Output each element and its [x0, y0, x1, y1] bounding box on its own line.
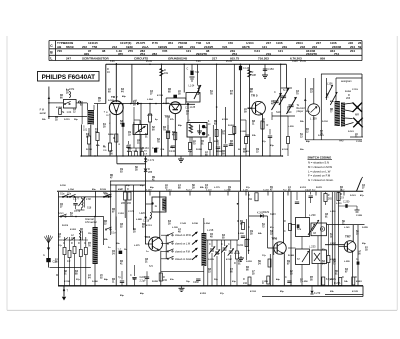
svg-text:K.253: K.253: [200, 293, 207, 295]
svg-text:TR 5: TR 5: [251, 94, 258, 98]
svg-text:96n: 96n: [300, 149, 304, 151]
svg-text:C: C: [130, 274, 132, 277]
svg-text:C.143: C.143: [180, 222, 187, 225]
svg-text:16k: 16k: [164, 72, 169, 75]
svg-text:C8: C8: [313, 233, 317, 235]
svg-text:K.193: K.193: [250, 291, 257, 293]
svg-text:6.76.203: 6.76.203: [290, 56, 302, 60]
svg-text:R: R: [71, 242, 73, 245]
svg-text:48: 48: [178, 231, 181, 234]
svg-text:L4: L4: [178, 228, 181, 231]
svg-text:C: C: [63, 242, 65, 245]
svg-text:88k: 88k: [96, 145, 100, 147]
svg-text:6p: 6p: [155, 119, 158, 121]
svg-text:C.2: C.2: [118, 249, 122, 251]
svg-text:C149: C149: [292, 61, 298, 63]
svg-text:V05: V05: [162, 49, 168, 53]
svg-text:R.208: R.208: [196, 149, 203, 151]
svg-text:K.213: K.213: [300, 187, 307, 189]
svg-text:159: 159: [313, 118, 318, 121]
svg-text:97: 97: [112, 212, 115, 214]
svg-text:954: 954: [168, 41, 173, 45]
svg-text:R.1: R.1: [144, 151, 148, 153]
svg-text:66: 66: [60, 98, 63, 100]
svg-text:23: 23: [208, 272, 211, 274]
svg-text:Ta: Ta: [62, 111, 65, 114]
svg-text:203: 203: [346, 97, 351, 100]
svg-text:S.221: S.221: [318, 135, 324, 137]
svg-text:R: R: [284, 220, 286, 223]
svg-text:MR: MR: [355, 113, 359, 117]
svg-text:R.276: R.276: [334, 282, 341, 285]
svg-text:L220: L220: [140, 212, 146, 215]
svg-text:50µ: 50µ: [216, 253, 220, 255]
svg-text:GRUNDIG245: GRUNDIG245: [168, 56, 188, 60]
svg-text:50: 50: [290, 274, 293, 276]
svg-text:48: 48: [210, 236, 213, 239]
svg-text:L.230: L.230: [309, 213, 316, 217]
svg-text:69µ: 69µ: [362, 243, 366, 245]
svg-text:94/78: 94/78: [242, 45, 250, 49]
svg-text:23: 23: [310, 92, 313, 94]
svg-text:69k: 69k: [330, 291, 334, 293]
svg-text:64: 64: [88, 277, 91, 280]
svg-text:58: 58: [330, 237, 333, 239]
svg-text:closed on M.W: closed on M.W: [175, 234, 192, 237]
svg-text:K.284: K.284: [56, 106, 63, 109]
svg-text:47n: 47n: [246, 150, 250, 153]
svg-text:1n: 1n: [146, 251, 149, 253]
svg-text:R: R: [119, 144, 121, 146]
svg-text:98: 98: [102, 49, 106, 53]
svg-text:S4: S4: [145, 133, 149, 136]
svg-text:1.04: 1.04: [67, 111, 72, 114]
svg-text:34: 34: [258, 263, 261, 266]
svg-text:81p: 81p: [270, 227, 274, 229]
svg-text:18: 18: [55, 120, 58, 122]
svg-text:L.151: L.151: [336, 203, 342, 205]
svg-text:51: 51: [64, 274, 67, 276]
svg-text:88p: 88p: [178, 125, 182, 127]
svg-text:R.274: R.274: [62, 224, 69, 227]
svg-text:915.75: 915.75: [230, 56, 240, 60]
svg-text:48µ: 48µ: [122, 95, 126, 98]
svg-text:70: 70: [296, 94, 299, 96]
svg-text:720: 720: [57, 49, 62, 53]
svg-text:101: 101: [83, 129, 88, 132]
svg-text:closed on Gram: closed on Gram: [175, 258, 192, 261]
svg-text:L.156: L.156: [330, 211, 336, 213]
svg-text:71: 71: [326, 97, 329, 99]
svg-text:L135: L135: [190, 107, 196, 109]
svg-text:S18: S18: [87, 207, 92, 210]
svg-text:V.24: V.24: [254, 49, 260, 53]
svg-text:player: player: [297, 110, 304, 113]
svg-text:C: C: [221, 243, 223, 246]
svg-text:6.269: 6.269: [146, 189, 152, 191]
svg-text:R: R: [267, 124, 269, 127]
svg-text:S.255: S.255: [362, 227, 368, 229]
svg-text:78: 78: [210, 94, 213, 96]
svg-text:S.1c: S.1c: [283, 89, 289, 92]
svg-text:K.113: K.113: [146, 225, 152, 227]
svg-text:K.137: K.137: [163, 103, 170, 105]
svg-text:closed on L.W: closed on L.W: [175, 243, 191, 246]
svg-text:L.179: L.179: [214, 187, 220, 189]
svg-text:K.246: K.246: [330, 258, 337, 261]
svg-text:K.158: K.158: [157, 95, 164, 97]
svg-text:S.161: S.161: [348, 131, 354, 133]
svg-text:46p: 46p: [140, 292, 144, 295]
svg-text:C: C: [209, 243, 211, 246]
svg-text:217: 217: [212, 56, 217, 60]
svg-text:L156: L156: [327, 83, 333, 86]
svg-text:19: 19: [128, 135, 131, 137]
svg-text:85p: 85p: [322, 249, 326, 251]
svg-text:T: T: [67, 291, 69, 293]
svg-text:7k: 7k: [356, 259, 359, 261]
svg-text:05: 05: [222, 238, 225, 240]
svg-text:204: 204: [350, 49, 355, 53]
svg-text:52: 52: [120, 227, 123, 229]
svg-text:85µ: 85µ: [280, 291, 284, 293]
svg-text:K.101: K.101: [282, 149, 289, 151]
svg-text:S.266: S.266: [92, 281, 98, 283]
svg-text:K.270: K.270: [330, 279, 337, 281]
svg-text:18µ: 18µ: [246, 239, 250, 241]
svg-text:89n: 89n: [92, 189, 96, 191]
svg-text:206: 206: [127, 202, 132, 205]
svg-text:S2a: S2a: [67, 194, 72, 196]
svg-text:77: 77: [330, 112, 333, 114]
svg-text:closed on F.M: closed on F.M: [175, 250, 190, 253]
svg-text:91: 91: [86, 137, 89, 139]
svg-text:S.161: S.161: [350, 195, 356, 197]
svg-text:C: C: [284, 230, 286, 233]
svg-text:M = closed on M.W: M = closed on M.W: [308, 165, 332, 169]
svg-text:242: 242: [243, 282, 248, 285]
svg-text:C.228: C.228: [356, 215, 363, 217]
svg-text:27k: 27k: [170, 119, 174, 121]
svg-text:51: 51: [145, 137, 148, 139]
svg-text:47p: 47p: [360, 194, 364, 197]
svg-text:2n: 2n: [108, 247, 111, 249]
svg-text:37: 37: [362, 188, 365, 190]
svg-text:C142: C142: [169, 150, 176, 153]
svg-text:R: R: [237, 220, 239, 223]
svg-text:TR3: TR3: [165, 115, 171, 119]
svg-text:25.09: 25.09: [300, 61, 306, 63]
svg-text:59: 59: [244, 112, 247, 114]
svg-text:959: 959: [320, 56, 325, 60]
svg-text:L: L: [50, 57, 52, 61]
svg-text:R.217: R.217: [186, 189, 193, 191]
svg-text:56: 56: [110, 154, 113, 156]
svg-text:283: 283: [152, 52, 157, 56]
svg-text:4.9: 4.9: [144, 154, 148, 156]
svg-text:28: 28: [135, 170, 138, 172]
svg-text:78: 78: [157, 142, 160, 144]
svg-text:R.182: R.182: [216, 151, 223, 153]
svg-text:63n: 63n: [170, 279, 174, 281]
svg-text:R: R: [234, 262, 236, 265]
svg-text:L4: L4: [178, 184, 181, 187]
svg-text:S.280: S.280: [108, 134, 114, 136]
svg-text:80p: 80p: [120, 295, 124, 297]
svg-text:S4: S4: [157, 138, 161, 141]
svg-text:L.231: L.231: [147, 115, 153, 117]
svg-text:S: S: [208, 121, 210, 123]
svg-text:226: 226: [103, 150, 107, 152]
svg-text:25.09: 25.09: [146, 61, 152, 63]
svg-text:247: 247: [66, 56, 71, 60]
svg-text:232/278: 232/278: [306, 52, 317, 56]
svg-text:C4: C4: [205, 184, 209, 187]
svg-text:202: 202: [82, 45, 87, 49]
svg-text:37: 37: [60, 207, 63, 209]
svg-text:TR6: TR6: [272, 237, 278, 241]
svg-text:C.259: C.259: [262, 281, 269, 283]
svg-text:S10: S10: [276, 111, 281, 114]
svg-text:67: 67: [345, 272, 348, 274]
svg-text:12: 12: [73, 112, 76, 114]
svg-text:S3b: S3b: [104, 194, 109, 196]
svg-text:270: 270: [128, 49, 133, 53]
svg-text:59: 59: [133, 105, 136, 107]
svg-text:K.261: K.261: [356, 281, 363, 283]
svg-text:TR4: TR4: [145, 235, 151, 239]
svg-text:PHILIPS F6G40AT: PHILIPS F6G40AT: [42, 74, 96, 81]
svg-text:75: 75: [193, 144, 196, 146]
svg-text:L.264: L.264: [147, 98, 153, 101]
svg-text:58: 58: [310, 280, 313, 282]
svg-text:64k: 64k: [258, 232, 262, 235]
svg-text:C247: C247: [305, 189, 312, 192]
svg-text:C: C: [274, 91, 276, 94]
svg-text:2.9: 2.9: [341, 197, 345, 200]
svg-text:A40: A40: [339, 140, 344, 143]
svg-text:TR 2: TR 2: [111, 95, 118, 99]
svg-text:98: 98: [246, 270, 249, 272]
svg-text:T56: T56: [92, 45, 98, 49]
svg-text:C.291: C.291: [118, 213, 125, 215]
svg-text:M: M: [56, 274, 58, 277]
svg-text:5.09: 5.09: [196, 61, 201, 63]
svg-text:65: 65: [58, 237, 61, 239]
svg-text:205: 205: [121, 202, 126, 205]
svg-text:93k: 93k: [252, 135, 256, 137]
svg-text:S.198: S.198: [192, 223, 198, 225]
svg-text:6.281: 6.281: [243, 189, 249, 191]
svg-text:R.268: R.268: [288, 255, 295, 257]
svg-text:L.275: L.275: [134, 245, 140, 247]
svg-text:11: 11: [112, 282, 115, 284]
svg-text:L.105: L.105: [234, 253, 240, 255]
svg-text:R: R: [355, 276, 357, 279]
svg-text:83: 83: [80, 105, 83, 107]
svg-text:121: 121: [278, 49, 283, 53]
svg-text:R: R: [127, 188, 129, 191]
svg-text:R229: R229: [263, 211, 270, 214]
svg-text:S.293: S.293: [246, 261, 252, 263]
svg-text:20: 20: [133, 232, 136, 234]
svg-text:S1a: S1a: [60, 193, 65, 196]
svg-text:31: 31: [145, 262, 148, 264]
svg-text:17p: 17p: [262, 255, 266, 257]
svg-text:66: 66: [230, 94, 233, 96]
svg-text:R.295: R.295: [152, 281, 159, 283]
svg-text:28: 28: [250, 234, 253, 236]
svg-text:2.38: 2.38: [86, 198, 91, 201]
svg-text:88k: 88k: [200, 187, 204, 189]
svg-text:6.218: 6.218: [206, 189, 212, 191]
svg-text:63: 63: [80, 232, 83, 234]
svg-text:68: 68: [240, 224, 243, 226]
svg-text:44µ: 44µ: [276, 278, 280, 281]
svg-text:R.109: R.109: [100, 189, 107, 191]
svg-text:15: 15: [256, 152, 259, 154]
svg-text:292/278: 292/278: [196, 52, 207, 56]
svg-text:59: 59: [358, 45, 362, 49]
svg-text:G: G: [43, 255, 45, 257]
svg-text:97p: 97p: [76, 279, 80, 281]
svg-text:10: 10: [262, 122, 265, 124]
svg-text:72: 72: [333, 264, 336, 266]
svg-text:TR7: TR7: [345, 235, 351, 239]
svg-text:S.1m: S.1m: [111, 233, 116, 235]
svg-text:S.115: S.115: [64, 119, 70, 121]
svg-text:C.217: C.217: [330, 243, 337, 245]
svg-text:56k: 56k: [42, 119, 46, 121]
svg-text:76: 76: [222, 134, 225, 136]
svg-text:27p: 27p: [220, 293, 224, 295]
svg-text:38n: 38n: [116, 243, 120, 245]
svg-text:L1: L1: [188, 120, 191, 122]
svg-text:SWITCH CODING: SWITCH CODING: [308, 156, 333, 160]
svg-text:35: 35: [252, 274, 255, 276]
svg-text:43: 43: [172, 134, 175, 137]
svg-text:C.218: C.218: [143, 221, 150, 223]
svg-text:aerial: aerial: [40, 112, 47, 115]
svg-text:C/95: C/95: [133, 151, 138, 153]
svg-text:S: S: [208, 135, 210, 137]
svg-text:S.229: S.229: [208, 259, 214, 261]
svg-text:25.09: 25.09: [226, 61, 232, 63]
svg-text:C3: C3: [128, 144, 132, 147]
svg-text:B: B: [50, 50, 53, 54]
svg-text:117: 117: [106, 115, 110, 117]
svg-text:41: 41: [120, 263, 123, 266]
svg-text:5A: 5A: [103, 146, 106, 149]
svg-text:R4: R4: [120, 260, 124, 263]
svg-text:44p: 44p: [306, 140, 310, 143]
svg-text:L.204: L.204: [204, 222, 210, 225]
svg-text:K.143: K.143: [222, 118, 229, 121]
svg-text:SCR/TRANSISTOR: SCR/TRANSISTOR: [82, 56, 109, 60]
svg-text:S7a: S7a: [297, 229, 302, 231]
svg-text:955: 955: [118, 52, 123, 56]
svg-text:C.179: C.179: [128, 211, 135, 213]
svg-text:44: 44: [121, 91, 124, 94]
svg-text:16µ: 16µ: [186, 281, 190, 283]
svg-text:C: C: [84, 242, 86, 245]
svg-text:150: 150: [228, 41, 233, 45]
svg-text:L.141: L.141: [344, 226, 350, 229]
svg-text:2.2µF: 2.2µF: [140, 280, 147, 283]
svg-text:F = closed on F.M: F = closed on F.M: [308, 174, 331, 178]
svg-text:72: 72: [262, 227, 265, 229]
svg-text:S4: S4: [322, 260, 326, 263]
svg-text:30: 30: [103, 127, 106, 129]
svg-text:36: 36: [358, 254, 361, 256]
svg-text:68: 68: [168, 92, 171, 94]
svg-text:1/2: 1/2: [67, 260, 71, 263]
svg-text:L1.04: L1.04: [189, 86, 195, 88]
svg-text:265: 265: [328, 198, 333, 201]
svg-text:63p: 63p: [232, 281, 236, 283]
svg-text:K.107: K.107: [226, 259, 233, 261]
svg-text:60: 60: [108, 92, 111, 94]
svg-text:55k: 55k: [306, 111, 310, 113]
svg-text:S.1m: S.1m: [58, 212, 64, 215]
svg-text:196: 196: [178, 45, 183, 49]
svg-text:754: 754: [334, 52, 339, 56]
svg-text:47: 47: [110, 177, 113, 180]
svg-text:C.119: C.119: [352, 89, 358, 91]
svg-text:03: 03: [120, 172, 123, 174]
svg-text:T36: T36: [196, 41, 202, 45]
svg-text:C2A: C2A: [160, 148, 165, 151]
svg-text:L.194: L.194: [68, 188, 74, 191]
svg-text:L.256: L.256: [302, 281, 308, 283]
svg-text:S.5: S.5: [149, 265, 153, 268]
svg-text:K4: K4: [168, 220, 172, 223]
svg-text:19: 19: [186, 114, 189, 116]
svg-text:K.220: K.220: [240, 131, 247, 133]
svg-text:17p: 17p: [58, 245, 62, 247]
svg-text:L4: L4: [288, 186, 291, 189]
svg-text:37: 37: [150, 94, 153, 96]
svg-text:CIRCUITS: CIRCUITS: [134, 56, 148, 60]
svg-text:L.233: L.233: [309, 245, 316, 249]
svg-text:88: 88: [178, 188, 181, 190]
svg-text:43p: 43p: [270, 144, 274, 147]
svg-text:S.269: S.269: [263, 189, 269, 191]
svg-text:30: 30: [66, 93, 69, 95]
svg-text:121: 121: [186, 49, 191, 53]
svg-text:218: 218: [300, 45, 305, 49]
svg-text:5.09: 5.09: [110, 61, 115, 63]
svg-text:C.218: C.218: [356, 141, 363, 143]
svg-text:09: 09: [222, 154, 225, 156]
svg-text:91: 91: [325, 217, 328, 219]
svg-text:12: 12: [306, 132, 309, 134]
svg-text:26µ: 26µ: [74, 119, 78, 121]
svg-text:14k: 14k: [344, 280, 348, 283]
svg-text:S7: S7: [297, 259, 301, 261]
svg-text:V24: V24: [222, 45, 228, 49]
svg-text:L.295: L.295: [344, 261, 350, 263]
svg-text:56k: 56k: [300, 121, 304, 123]
svg-text:90: 90: [152, 130, 155, 132]
svg-text:7µ: 7µ: [118, 276, 121, 279]
svg-text:C: C: [228, 243, 230, 246]
svg-text:L.298: L.298: [238, 233, 244, 235]
svg-text:24: 24: [112, 253, 115, 256]
svg-text:R.270: R.270: [316, 187, 323, 189]
svg-text:S.150: S.150: [60, 185, 66, 187]
svg-text:7.04: 7.04: [195, 72, 200, 74]
